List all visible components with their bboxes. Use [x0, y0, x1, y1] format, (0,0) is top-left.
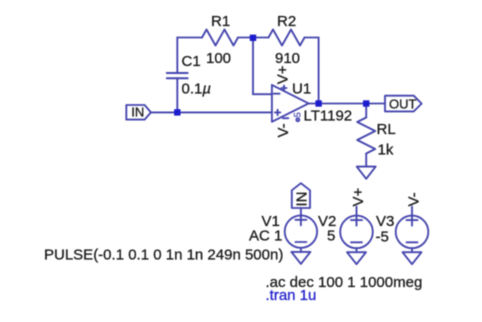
- wire R2 down to output: [318, 38, 320, 104]
- node junction output/R2: [315, 100, 321, 106]
- svg-text:V+: V+: [275, 65, 292, 84]
- port IN left: [126, 105, 151, 120]
- voltage source V1: [285, 214, 317, 248]
- svg-text:V3: V3: [376, 213, 394, 230]
- svg-text:IN: IN: [131, 105, 144, 120]
- svg-text:R2: R2: [277, 13, 296, 30]
- wire V2 ground stub: [356, 248, 358, 252]
- svg-text:U1: U1: [292, 81, 311, 98]
- svg-text:PULSE(-0.1 0.1 0 1n 1n 249n 50: PULSE(-0.1 0.1 0 1n 1n 249n 500n): [44, 247, 283, 264]
- node junction C1/IN: [174, 109, 180, 115]
- ground V3: [403, 252, 422, 264]
- svg-text:V-: V-: [405, 192, 422, 206]
- port OUT: [385, 96, 422, 112]
- svg-text:V+: V+: [350, 187, 367, 206]
- node junction output/RL: [363, 100, 369, 106]
- svg-text:R1: R1: [211, 13, 230, 30]
- svg-text:AC 1: AC 1: [249, 228, 282, 245]
- svg-text:OUT: OUT: [389, 96, 417, 111]
- wire output: [309, 103, 385, 105]
- svg-text:100: 100: [206, 50, 231, 67]
- resistor R1: [202, 30, 238, 46]
- voltage source V2: [340, 215, 373, 249]
- wire R2 right: [305, 37, 319, 39]
- svg-text:IN: IN: [294, 192, 311, 207]
- node junction R1/R2: [250, 35, 256, 41]
- op-amp U1: [272, 85, 309, 122]
- svg-text:.tran 1u: .tran 1u: [266, 287, 317, 304]
- wire feedback to inverting input: [253, 93, 272, 95]
- wire V3 label stub: [411, 207, 413, 216]
- ground V2: [347, 252, 366, 264]
- svg-text:1k: 1k: [378, 142, 394, 159]
- svg-text:-5: -5: [376, 229, 389, 246]
- svg-text:5: 5: [327, 228, 335, 245]
- wire feedback vertical: [252, 38, 254, 95]
- wire RL top: [365, 104, 367, 118]
- wire C1 lower: [176, 78, 178, 112]
- svg-text:5: 5: [293, 112, 304, 117]
- ground V1: [291, 252, 310, 264]
- svg-text:0.1µ: 0.1µ: [182, 81, 212, 98]
- wire V2 label stub: [356, 207, 358, 216]
- svg-text:RL: RL: [377, 121, 396, 138]
- wire V3 ground stub: [411, 248, 413, 252]
- wire C1 upper: [176, 38, 178, 74]
- port IN above V1: [292, 183, 310, 208]
- wire top left: [177, 37, 202, 39]
- resistor RL: [357, 118, 375, 154]
- svg-text:LT1192: LT1192: [304, 108, 353, 125]
- resistor R2: [269, 30, 305, 46]
- svg-text:C1: C1: [182, 53, 201, 70]
- wire V1 ground stub: [300, 248, 302, 252]
- wire RL bottom: [365, 154, 367, 167]
- wire R1 to R2: [238, 37, 269, 39]
- svg-text:910: 910: [275, 50, 300, 67]
- svg-text:V-: V-: [275, 123, 292, 137]
- wire main input: [151, 111, 272, 113]
- wire V1 port stub: [300, 208, 302, 215]
- ground RL: [357, 167, 376, 179]
- capacitor C1: [167, 73, 188, 78]
- voltage source V3: [396, 215, 429, 249]
